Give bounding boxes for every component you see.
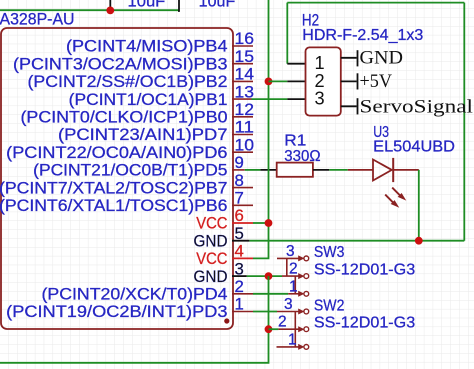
pin 1 stub: [232, 311, 253, 313]
wire rail2 to SW2 pin2: [269, 328, 279, 330]
pin 9 stub: [232, 169, 245, 171]
pin 8 stub: [232, 187, 253, 189]
H2 pin 2 lead: [287, 80, 305, 82]
SW3 pin 3 arrow: [298, 255, 304, 261]
pin 3 stub GND: [232, 275, 247, 277]
svg-text:R1: R1: [284, 132, 306, 149]
wire R1 to LED green part: [329, 169, 348, 171]
GND rail2 vertical to bottom: [0, 276, 269, 363]
svg-text:(PCINT6/XTAL1/TOSC1)PB6: (PCINT6/XTAL1/TOSC1)PB6: [0, 197, 228, 215]
svg-text:(PCINT23/AIN1)PD7: (PCINT23/AIN1)PD7: [58, 126, 228, 144]
SW3 pin 1 circle: [304, 291, 309, 296]
junction top-left: [106, 6, 114, 14]
top wire to right edge: [287, 2, 464, 4]
wire R1 to LED black part: [313, 169, 329, 171]
capacitor C lead 1: [109, 0, 111, 10]
SW2 pin2 stub: [278, 328, 300, 330]
net flag +5V bar: [357, 73, 359, 89]
wire top-left horizontal: [0, 9, 179, 11]
svg-text:+5V: +5V: [360, 71, 393, 92]
pin 12 stub: [232, 116, 253, 118]
SW2 vseg 3-2: [294, 312, 296, 330]
wire pin3 to SW3 pin2: [247, 275, 282, 277]
svg-text:ServoSignal: ServoSignal: [360, 96, 474, 117]
svg-text:(PCINT19/OC2B/INT1)PD3: (PCINT19/OC2B/INT1)PD3: [6, 303, 227, 321]
svg-text:GND: GND: [360, 48, 404, 69]
svg-text:(PCINT4/MISO)PB4: (PCINT4/MISO)PB4: [66, 38, 228, 56]
svg-text:SS-12D01-G3: SS-12D01-G3: [314, 315, 415, 332]
right edge vertical wire: [463, 3, 465, 241]
capacitor C lead 2: [178, 0, 179, 11]
SW3 pin 3 circle: [304, 256, 309, 261]
svg-text:3: 3: [286, 243, 295, 260]
svg-text:EL504UBD: EL504UBD: [373, 139, 455, 156]
SW2 pin 3 circle: [304, 309, 309, 314]
svg-text:10uF: 10uF: [128, 0, 166, 10]
svg-text:(PCINT2/SS#/OC1B)PB2: (PCINT2/SS#/OC1B)PB2: [28, 73, 228, 91]
svg-text:2: 2: [278, 314, 287, 331]
junction rail2 pin3: [265, 272, 273, 280]
H2 pin 3 lead: [287, 98, 305, 100]
H2 pin numbers: [315, 53, 325, 108]
LED cathode bar: [392, 158, 394, 182]
SW2 pin 3 arrow: [298, 309, 304, 315]
junction rail pin2 H2: [265, 78, 273, 86]
svg-text:GND: GND: [194, 232, 228, 250]
svg-text:(PCINT20/XCK/T0)PD4: (PCINT20/XCK/T0)PD4: [42, 286, 228, 304]
SW2 vseg 2-1: [294, 329, 296, 347]
svg-text:1: 1: [289, 278, 298, 295]
junction rail pin6: [265, 219, 273, 227]
pin 13 stub: [232, 98, 252, 100]
junction LED GND: [415, 237, 423, 245]
connector H2 body: [306, 47, 341, 115]
wire pin2 to SW3 pin1: [253, 293, 288, 295]
SW3 pin1 stub: [288, 293, 300, 295]
SW2 pin 1 arrow: [298, 344, 304, 350]
LED U3 anode lead: [348, 169, 373, 171]
SW2 pin 1 circle: [304, 345, 309, 350]
SW2 pin 2 circle: [304, 327, 309, 332]
wire pin1 to SW2 pin3: [253, 311, 277, 313]
wire pin9 to R1 black part: [260, 169, 276, 171]
SW2 pin 2 arrow: [298, 326, 304, 332]
pin 5 stub GND: [232, 240, 249, 242]
svg-text:HDR-F-2.54_1x3: HDR-F-2.54_1x3: [302, 27, 423, 44]
net flag GND lead: [341, 57, 357, 59]
junction rail2 SW2 pin2: [265, 325, 273, 333]
net flag ServoSignal bar: [357, 98, 359, 114]
svg-text:SS-12D01-G3: SS-12D01-G3: [314, 261, 415, 278]
svg-text:VCC: VCC: [196, 215, 227, 233]
svg-text:(PCINT7/XTAL2/TOSC2)PB7: (PCINT7/XTAL2/TOSC2)PB7: [0, 179, 228, 197]
LED cathode lead: [393, 169, 419, 171]
IC U1 ATMEGA328P-AU body: [1, 28, 233, 329]
wire rail to H2 pin2: [269, 80, 288, 82]
resistor R1 body: [277, 163, 313, 177]
svg-text:VCC: VCC: [196, 250, 227, 268]
GND wire pin5 long: [249, 240, 464, 242]
H2 pin 1 lead: [287, 63, 305, 65]
SW3 pin2 stub: [282, 275, 301, 277]
svg-text:A328P-AU: A328P-AU: [0, 9, 75, 28]
net flag ServoSignal lead: [341, 105, 357, 107]
LED emission arrow 1: [392, 188, 406, 201]
svg-text:10uF: 10uF: [199, 0, 236, 10]
pin 16 stub: [232, 45, 253, 47]
LED U3 triangle: [373, 160, 392, 181]
pin 2 stub: [232, 293, 253, 295]
SW2 pin1 stub: [277, 346, 301, 348]
net flag GND bar: [357, 50, 359, 66]
svg-text:330Ω: 330Ω: [284, 148, 320, 165]
LED emission arrow 2: [385, 195, 399, 208]
svg-text:(PCINT22/OC0A/AIN0)PD6: (PCINT22/OC0A/AIN0)PD6: [6, 144, 227, 162]
svg-text:SW3: SW3: [314, 244, 345, 261]
pin 6 stub VCC: [232, 222, 253, 224]
svg-text:(PCINT1/OC1A)PB1: (PCINT1/OC1A)PB1: [69, 91, 228, 109]
svg-text:3: 3: [284, 296, 293, 313]
svg-text:GND: GND: [194, 268, 228, 286]
svg-text:2: 2: [289, 261, 298, 278]
wire pin9 to R1 green part: [245, 169, 261, 171]
IC pin numbers: [235, 29, 255, 314]
wire pin13 to H2 pin3: [252, 98, 288, 100]
dark red dot near PD3 corner: [224, 318, 229, 323]
svg-text:(PCINT0/CLKO/ICP1)PB0: (PCINT0/CLKO/ICP1)PB0: [21, 109, 228, 127]
pin 15 stub: [232, 63, 253, 65]
svg-text:(PCINT21/OC0B/T1)PD5: (PCINT21/OC0B/T1)PD5: [33, 162, 227, 180]
wire pin6 to rail: [253, 222, 269, 224]
pin 14 stub: [232, 80, 253, 82]
H2 feed wire from top: [286, 3, 288, 64]
+5V rail vertical: [253, 0, 269, 258]
svg-text:SW2: SW2: [314, 297, 345, 314]
svg-text:3: 3: [315, 89, 325, 109]
SW3 vseg 3-2: [286, 258, 288, 276]
net flag +5V lead: [341, 80, 357, 82]
SW3 pin 2 arrow: [298, 273, 304, 279]
switch SW3 pin3 stub: [277, 257, 301, 259]
pin 7 stub: [232, 204, 253, 206]
pin 4 stub VCC: [232, 257, 253, 259]
svg-text:1: 1: [288, 331, 297, 348]
SW3 pin 1 arrow: [298, 291, 304, 297]
pin 10 stub: [232, 151, 253, 153]
SW3 pin 2 circle: [304, 274, 309, 279]
switch SW2 pin3 stub: [277, 311, 301, 313]
IC pin names: [0, 38, 228, 322]
LED down wire: [418, 170, 420, 241]
svg-text:(PCINT3/OC2A/MOSI)PB3: (PCINT3/OC2A/MOSI)PB3: [13, 55, 227, 73]
pin 11 stub: [232, 134, 253, 136]
SW3 vseg 2-1: [294, 276, 296, 294]
